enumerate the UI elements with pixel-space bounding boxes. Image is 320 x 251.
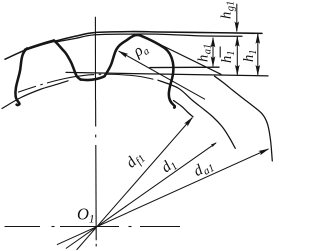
dimension h_1 (L1 to hob root line) [256,33,261,76]
dimension h_a1 (L2 to hob pitch line) [211,37,216,68]
hob root line (long thin bottom reference line) [66,72,268,76]
pitch/root extension solid arc (d1 arrow target) [158,80,235,148]
tip circle arc d_a1 (far right big arc) [215,76,273,161]
break line left (wavy sector cut) [15,49,27,106]
tooth space root trough [81,76,105,80]
left tooth right flank [54,41,81,80]
root circle extension arc right of break (d_f1 target) [174,101,194,117]
hob tip thin line L2 [57,34,242,42]
horizontal centerline through O1 dash-dot [5,226,181,228]
slant line from tooth corner to root line [157,43,221,74]
left tooth top arc [25,41,54,50]
dimension arrow d_1 (pitch diameter) [66,142,217,248]
overbar of h-bar_1 [219,47,221,58]
hob pitch line (short horizontal reference line) [150,66,219,68]
dimension arrow d_f1 (root diameter) [77,117,193,250]
right tooth left flank [105,36,134,76]
vertical centerline solid upper part [94,17,96,100]
vertical centerline dash-dot lower part [95,100,98,246]
dimension arrow d_a1 (tip diameter) [57,149,269,245]
pitch circle dash-dot arc d1 [18,74,158,92]
dimension h_g1 (top edge down to L1) [235,4,240,33]
leader arrow rho_a (hob tip fillet radius) [118,51,205,100]
dimension h-bar_1 (L2 to hob root line) [235,36,240,76]
tip reference thin arc L1 (over tooth tops, to right edge) [5,32,262,60]
right tooth right flank with break squiggle [134,35,175,108]
root circle thin arc (left) [2,81,68,109]
